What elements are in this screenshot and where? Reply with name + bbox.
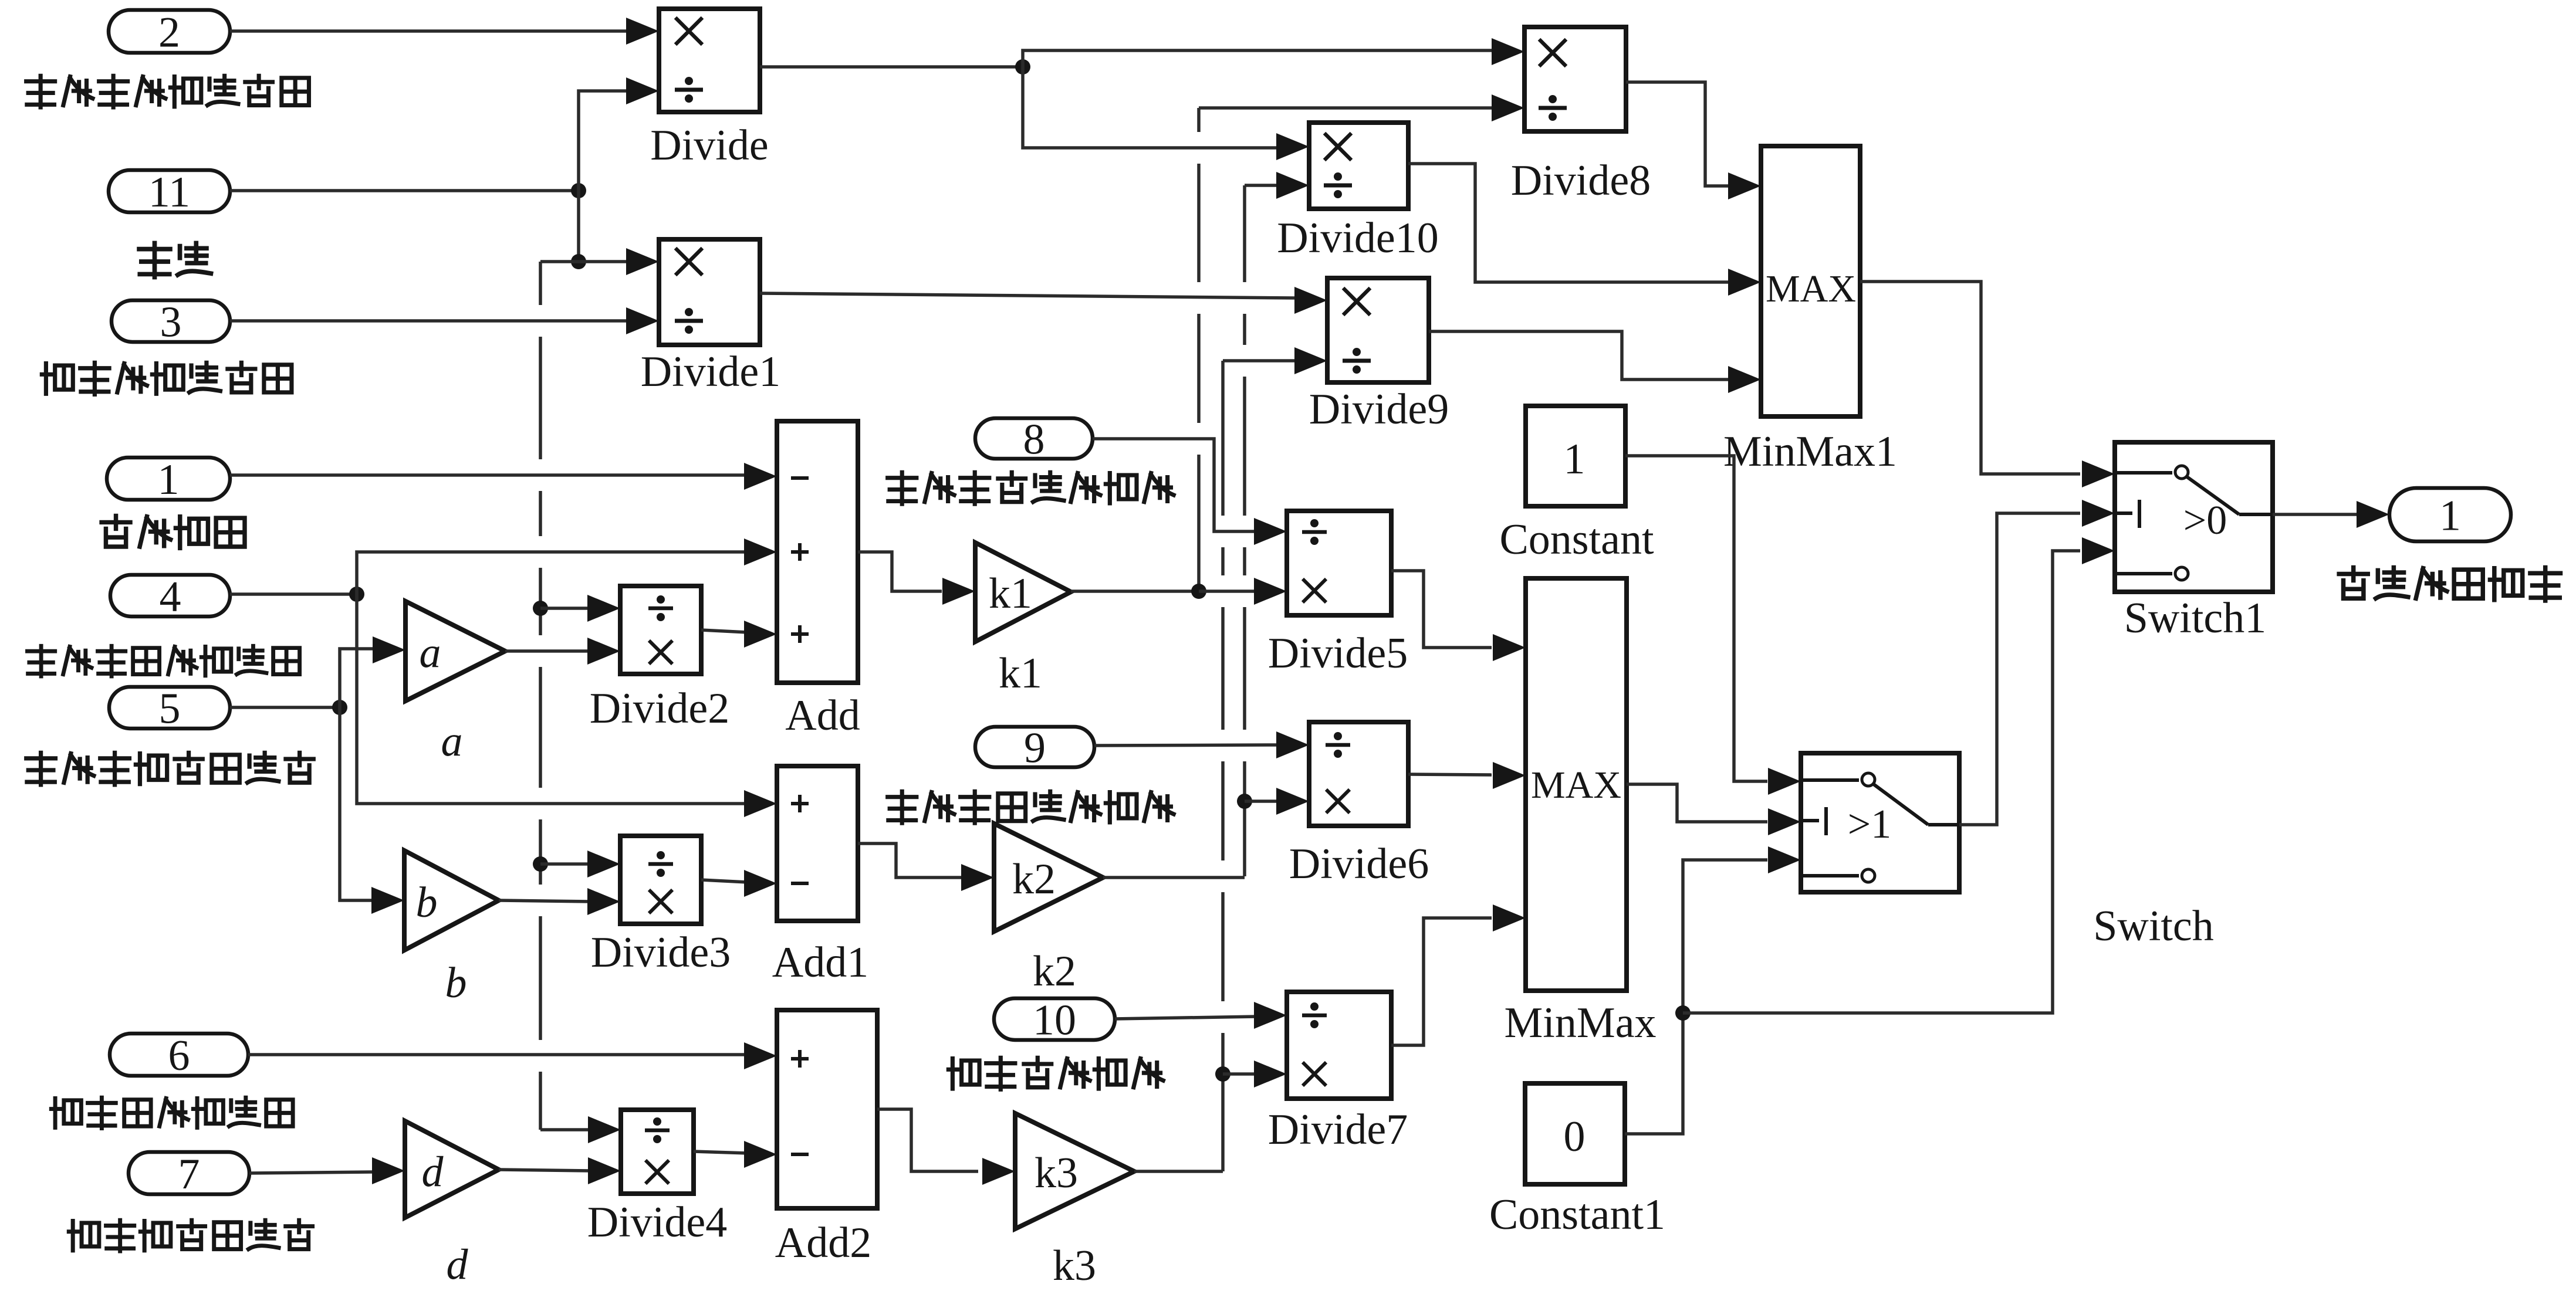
block Constant1 [1525,1083,1625,1184]
wire: Constant out to Switch in1 [1625,456,1767,781]
svg-text:Divide3: Divide3 [591,929,731,977]
node: u to Divide2 [533,601,548,616]
svg-text:MinMax: MinMax [1505,999,1657,1047]
svg-text:4: 4 [160,573,181,621]
wire: Switch out to Switch1 in2 [1959,513,2080,825]
wire: Divide10 out to MinMax1 in2 [1408,164,1729,282]
svg-text:k2: k2 [1033,947,1076,995]
wire: port9 to Divide6 div [1094,745,1276,746]
wire: k3 feedback vertical x=2084 [1221,361,1225,1171]
svg-text:Add1: Add1 [772,939,868,987]
svg-text:3: 3 [160,299,182,347]
svg-text:Switch1: Switch1 [2124,594,2267,642]
inport 8 [975,418,1093,459]
wire: Divide2 out to Add [701,630,748,632]
wire: Divide4 out to Add2 minus [694,1151,748,1153]
svg-text:1: 1 [2439,492,2461,540]
label: tractor yaw rate [26,753,56,784]
inport 9 [975,727,1094,767]
wire: port2 to Divide x-input [230,29,628,33]
wire: gain b out to Divide3 x [499,900,590,902]
block Switch1 [2115,442,2273,592]
svg-text:MinMax1: MinMax1 [1723,428,1897,476]
svg-text:Constant1: Constant1 [1489,1191,1665,1239]
label: tractor c.g. side-slip angle [27,646,55,676]
wire: port3 to Divide1 div-input [230,319,628,323]
label: tractor rear axle lateral force [888,791,917,823]
block Divide1 [659,239,760,345]
svg-text:Divide10: Divide10 [1277,214,1438,262]
svg-text:d: d [447,1241,469,1289]
label: vehicle speed [139,243,170,277]
block Add2 [777,1010,877,1208]
label: trailer c.g. side-slip angle [51,1098,81,1127]
svg-text:Divide4: Divide4 [587,1198,727,1246]
outport 1 [2389,488,2511,541]
svg-text:a: a [441,717,463,765]
gain b [404,851,499,950]
svg-text:k3: k3 [1035,1149,1078,1197]
inport 5 [109,687,230,729]
block Divide9 [1327,278,1429,382]
wire: Divide8 out to MinMax1 in1 [1626,82,1729,186]
wire: Constant1 out via node to Switch in3 and Switch1 in3 [1625,860,1767,1134]
gain a [405,601,505,701]
svg-text:Switch: Switch [2093,902,2214,950]
svg-text:MAX: MAX [1766,267,1856,310]
wire: k1 feedback vertical x=2043 [1197,108,1201,591]
svg-text:9: 9 [1024,724,1046,773]
wire: k1 top corner to Divide8 div [1199,106,1201,110]
inport 6 [110,1034,248,1076]
wire: Divide1 output to Divide9 x-input [760,293,1294,298]
svg-text:b: b [445,959,467,1007]
svg-text:Divide: Divide [650,121,768,170]
gain k2 [994,824,1103,931]
svg-text:0: 0 [1564,1113,1586,1161]
block Add [777,421,858,683]
block Divide3 [620,836,701,924]
svg-text:Divide6: Divide6 [1289,840,1429,888]
label: front wheel steer angle [102,516,130,547]
wire: port10 to Divide7 div [1115,1017,1257,1019]
svg-text:Divide2: Divide2 [590,685,729,733]
wire: k2 feedback vertical x=2121 [1243,185,1246,876]
inport 1 [107,458,230,500]
block Switch [1801,753,1959,892]
svg-text:a: a [420,629,441,677]
wire crossover gaps [536,305,545,337]
wire: Divide3 out to Add1 minus [701,880,748,882]
block Divide7 [1287,992,1391,1099]
wire: Divide9 out to MinMax1 in3 [1429,331,1729,380]
wire: Divide5 out to MinMax in1 [1391,571,1492,648]
wire: gain d out to Divide4 x [499,1170,590,1171]
svg-text:1: 1 [158,456,180,504]
svg-text:k3: k3 [1053,1242,1096,1290]
gain k1 [975,543,1071,642]
wire: MinMax out to Switch in2 [1627,784,1767,822]
wire: u to Divide4 [540,1128,590,1131]
svg-text:Divide9: Divide9 [1309,385,1449,433]
wire: k2 out up [1103,876,1245,879]
svg-text:5: 5 [159,685,181,733]
block Divide6 [1309,722,1408,826]
svg-text:Add: Add [785,692,860,740]
wire: k1 out with node [1071,589,1199,593]
svg-text:Divide7: Divide7 [1268,1106,1408,1154]
gain k3 [1015,1113,1134,1229]
svg-text:k1: k1 [999,649,1042,697]
svg-text:MAX: MAX [1531,764,1621,807]
svg-text:Divide5: Divide5 [1268,629,1408,677]
block Constant [1526,406,1625,506]
wire: Divide output to node [760,65,1023,69]
wire: port8 to Divide5 div [1093,439,1257,531]
wire: k2 top corner to Divide10 div [1245,184,1277,187]
svg-text:d: d [422,1148,444,1196]
block Divide5 [1287,511,1391,615]
wire: port6 to Add2 plus [248,1053,748,1056]
block Divide2 [620,586,701,674]
block Divide4 [621,1110,694,1194]
wire: port11 bus [230,189,579,192]
svg-text:2: 2 [158,9,180,57]
wire: k3 out up [1134,1170,1223,1173]
wire: port7 to gain d [249,1172,372,1173]
svg-text:10: 10 [1033,997,1076,1045]
svg-text:Divide8: Divide8 [1511,157,1651,205]
wire: Divide6 out to MinMax in2 [1408,774,1492,775]
svg-text:k2: k2 [1012,855,1056,903]
svg-text:Add2: Add2 [775,1219,871,1267]
block Divide10 [1309,123,1408,209]
inport 11 [109,170,230,212]
wire: port1 to Add minus [230,473,748,477]
svg-text:>0: >0 [2183,498,2227,543]
inport 2 [109,10,230,53]
wire: Add1 out to k2 [858,843,961,878]
wire: Divide7 out to MinMax in3 [1391,918,1492,1045]
label: trailer lateral acceleration [42,364,73,394]
wire: MinMax1 out to Switch1 in1 [1860,282,2080,474]
svg-text:k1: k1 [989,570,1032,618]
svg-text:1: 1 [1564,435,1586,483]
inport 3 [111,300,230,342]
inport 10 [994,998,1115,1040]
block MinMax1 [1761,146,1860,416]
svg-text:11: 11 [148,168,190,216]
wire: gain a out to Divide2 x [505,649,590,653]
svg-text:Divide1: Divide1 [641,348,780,396]
wire: Switch1 out to outport [2273,513,2358,516]
block Add1 [777,766,858,921]
svg-text:7: 7 [178,1150,200,1198]
label: tractor lateral acceleration [26,76,55,107]
wire: Add out to k1 [858,552,942,591]
wire: Add2 out to k3 [877,1109,978,1171]
block MinMax [1526,578,1627,991]
label: trailer axle lateral force [948,1059,979,1089]
label: trailer yaw rate [69,1221,99,1250]
wire: port4 bus [230,592,357,596]
label: yaw instability signal [2339,567,2368,598]
wire: jog from node to u-line [540,260,579,263]
svg-text:6: 6 [168,1032,190,1080]
inport 7 [129,1152,249,1194]
block Divide [659,9,760,112]
node: u to Divide3 [533,856,548,872]
svg-text:Constant: Constant [1499,516,1654,564]
gain d [405,1121,499,1218]
svg-text:>1: >1 [1848,802,1891,847]
wire: k3 top corner to Divide9 div [1223,359,1294,362]
svg-text:b: b [416,879,438,927]
inport 4 [110,575,230,616]
wire: port5 bus [230,706,340,709]
wire: u-line (port 11 speed bus) vertical x=921 [539,262,542,1130]
svg-text:8: 8 [1023,416,1045,464]
label: tractor front axle lateral force [888,472,917,504]
block Divide8 [1524,27,1626,131]
